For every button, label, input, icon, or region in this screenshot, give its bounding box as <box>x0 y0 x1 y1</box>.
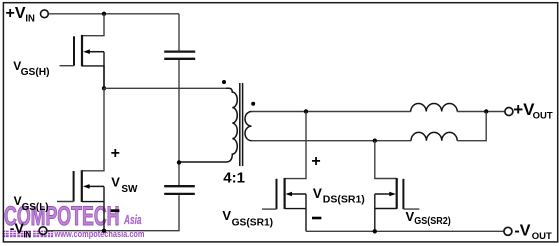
node junction primary bottom / cap column <box>177 160 181 164</box>
wire L1 to +VOUT <box>457 111 504 113</box>
svg-text:IN: IN <box>24 229 32 240</box>
label minus of VDS(SR1) <box>312 217 321 220</box>
capacitor C2 bottom <box>164 186 195 194</box>
svg-text:V: V <box>222 208 231 223</box>
svg-text:+: + <box>311 153 320 170</box>
watermark COMPOTECH Asia <box>4 201 142 231</box>
wire capacitor column upper <box>178 14 180 51</box>
wire capacitor column middle <box>178 60 180 185</box>
capacitor C1 top <box>164 52 195 59</box>
node junction secondary bottom / SR2 drain <box>373 139 377 143</box>
node junction at +VOUT <box>484 109 488 113</box>
svg-text:-V: -V <box>514 223 530 240</box>
label VGS(H) <box>13 59 49 78</box>
label VGS(L) <box>14 194 49 213</box>
svg-text:IN: IN <box>25 14 35 25</box>
node junction secondary top / SR1 drain <box>304 109 308 113</box>
svg-text:V: V <box>406 209 415 224</box>
node -VIN terminal <box>10 220 47 240</box>
node junction at -VIN rail <box>102 229 106 233</box>
label minus of VSW <box>111 209 120 212</box>
wire SR1 drain lead <box>285 112 306 179</box>
svg-text:GS(H): GS(H) <box>21 67 50 78</box>
wire Q1 gate lead <box>60 65 75 67</box>
svg-text:DS(SR1): DS(SR1) <box>323 195 365 206</box>
wire Q2 gate lead <box>57 201 74 203</box>
svg-text:+V: +V <box>6 5 26 22</box>
label VSW <box>111 175 138 195</box>
wire -VOUT rail <box>306 230 504 232</box>
transistor SR2 MOSFET <box>375 178 404 231</box>
svg-text:Asia: Asia <box>123 212 141 227</box>
svg-text:V: V <box>313 186 322 201</box>
svg-text:4:1: 4:1 <box>223 169 245 186</box>
svg-text:SW: SW <box>121 184 138 195</box>
node +VOUT terminal <box>505 100 553 122</box>
svg-text:GS(SR1): GS(SR1) <box>232 217 274 228</box>
transformer secondary phase dot <box>251 102 255 106</box>
node junction at switch node <box>102 86 106 90</box>
wire L2 to +VOUT junction <box>457 112 486 141</box>
node +VIN terminal <box>6 5 49 25</box>
svg-text:+: + <box>111 145 120 162</box>
wire top rail from +VIN to capacitor column <box>49 13 179 15</box>
label VGS(SR2) <box>406 209 451 227</box>
transistor Q1 high-side MOSFET <box>74 35 104 88</box>
transformer T1 primary winding <box>179 88 237 162</box>
svg-text:GS(L): GS(L) <box>22 202 49 213</box>
watermark chinese tagline blocks <box>3 231 54 238</box>
transformer T1 core <box>240 83 243 166</box>
arrow of Q1 pointing left <box>83 49 90 54</box>
wire switch node to transformer primary <box>104 87 226 89</box>
wire secondary bottom rail <box>252 140 412 142</box>
wire SR2 drain lead <box>375 141 397 179</box>
wire SR1 gate lead <box>262 208 277 210</box>
wire Q2 drain lead <box>82 88 104 171</box>
arrow of Q2 pointing left <box>83 184 90 189</box>
transformer primary phase dot <box>222 80 226 84</box>
transistor SR1 MOSFET <box>277 178 307 231</box>
node -VOUT terminal <box>504 223 552 242</box>
node junction SR2 source at -VOUT rail <box>373 229 377 233</box>
node junction at +VIN rail <box>102 12 106 16</box>
svg-text:V: V <box>111 175 120 190</box>
transformer T1 secondary winding <box>245 112 251 141</box>
arrow of SR1 pointing left <box>285 192 292 197</box>
svg-text:OUT: OUT <box>533 111 553 122</box>
arrow of SR2 pointing right <box>389 192 396 197</box>
transistor Q2 low-side MOSFET <box>74 170 104 231</box>
label VDS(SR1) <box>313 186 365 206</box>
svg-text:-V: -V <box>10 220 25 236</box>
svg-text:OUT: OUT <box>532 231 552 242</box>
wire Q1 drain lead <box>82 14 104 36</box>
wire SR2 gate lead <box>403 208 419 210</box>
inductor L1 <box>411 104 458 112</box>
inductor L2 <box>411 132 457 140</box>
wire secondary top rail <box>252 111 411 113</box>
wire capacitor column lower to -VIN rail <box>47 195 179 231</box>
label VGS(SR1) <box>222 208 273 228</box>
svg-text:GS(SR2): GS(SR2) <box>414 216 451 227</box>
svg-text:V: V <box>14 194 22 208</box>
